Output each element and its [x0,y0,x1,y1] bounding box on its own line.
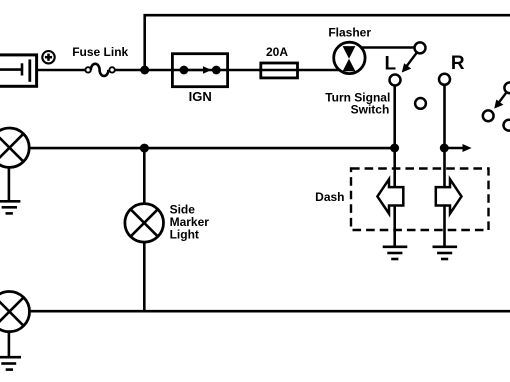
second switch (hazard, cut off at right edge): lever arrow [494,93,506,109]
wire: left feed bus to L column [10,147,395,150]
hazard switch feed contact [504,82,510,93]
indicator: left turn arrow (dash) [377,179,403,213]
svg-text:Light: Light [170,227,199,241]
switch feed contact (from flasher) [415,42,426,53]
wire: L column (switch L contact down to dash ground) [393,80,396,247]
svg-text:20A: 20A [266,45,288,59]
svg-text:Dash: Dash [315,190,344,204]
node: junction L column / feed bus [390,144,399,153]
lamp: rear turn lamp [0,292,30,332]
wire: rear lamp to ground [8,312,11,357]
svg-text:Flasher: Flasher [328,26,371,40]
dash cluster box (dashed) [351,169,489,231]
node: junction side marker / feed bus [140,144,149,153]
wire: front lamp to ground [8,148,11,201]
ground: right indicator [433,247,458,259]
node: junction fuse link / top bus [140,66,149,75]
fusible link F1 [85,64,114,76]
fuse 20A [261,63,298,78]
ground: left indicator [383,247,408,259]
svg-text:Switch: Switch [351,103,390,117]
lamp: side marker light [125,204,164,243]
switch R contact [439,74,450,85]
IGN contact right [212,66,221,75]
flasher unit [334,42,365,73]
switch IGN box [172,54,227,87]
lamp: front turn lamp [0,128,29,167]
hazard switch right contact [504,120,510,131]
wire: side marker column [143,148,146,311]
svg-text:R: R [451,53,465,74]
battery B1 [0,55,37,86]
IGN switch arrow [184,66,212,74]
node: junction R column (arrow continuation) [440,144,449,153]
wire: fuse link to flasher [115,69,340,72]
ground: rear lamp [0,357,21,369]
wire: top bus from ignition junction to right edge [145,15,510,70]
switch lever arrow (feed to L) [402,53,417,73]
switch L contact [390,75,401,86]
wire: bottom bus [9,310,510,313]
indicator: right turn arrow (dash) [436,179,462,213]
wire: main feed battery to fuse link [37,69,86,72]
ground: front lamp [0,201,20,213]
svg-text:Fuse Link: Fuse Link [72,45,128,59]
switch center contact [415,98,426,109]
wire: R column (switch R contact down to dash ground) [443,79,446,247]
wire: flasher output to switch feed contact [349,46,420,49]
label: Turn Signal Switch [325,90,390,116]
svg-text:IGN: IGN [189,89,212,104]
svg-text:L: L [384,54,396,75]
battery positive terminal (+) [42,51,54,63]
label: Side Marker Light [170,203,210,242]
IGN contact left [180,66,189,75]
arrow: continuation to right turn lamps [444,144,471,152]
hazard switch left contact [483,110,494,121]
